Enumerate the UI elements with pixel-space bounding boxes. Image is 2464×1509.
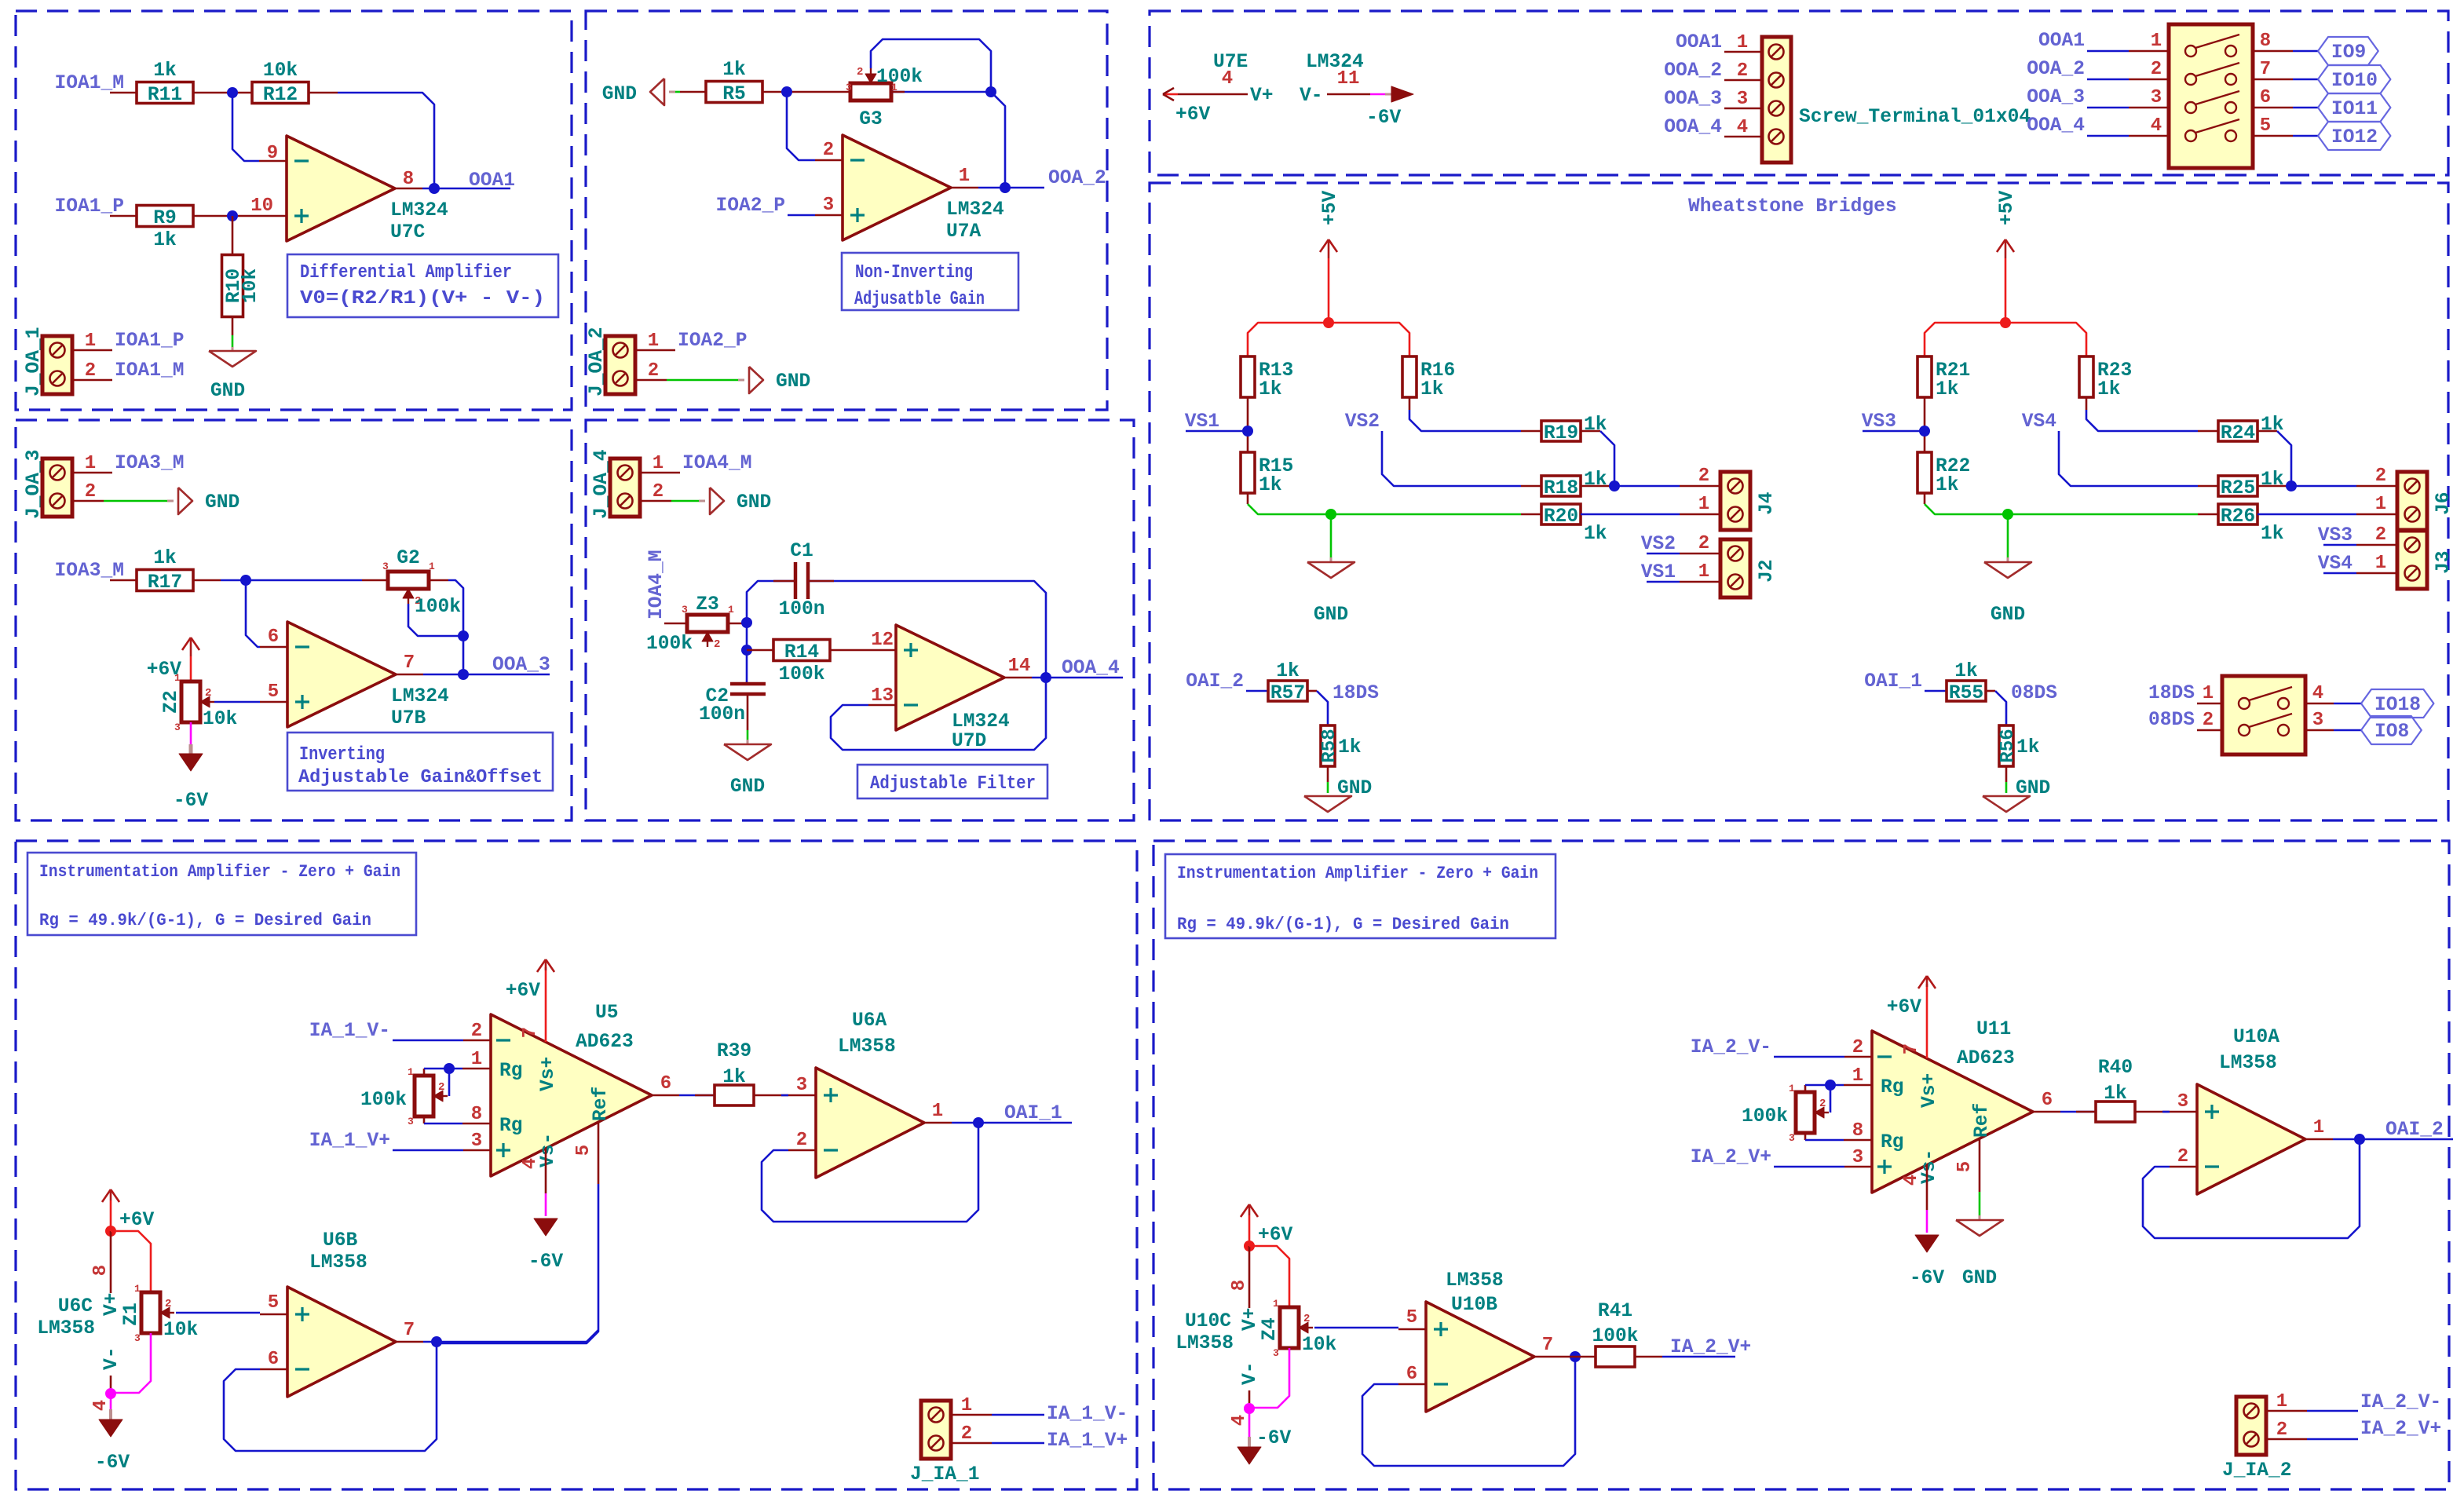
pin 1 wire J_OA_4	[640, 472, 680, 474]
pin 4 V+ of U7E	[1178, 93, 1248, 96]
power -6V arrow U10C	[1237, 1447, 1261, 1464]
svg-text:2: 2	[1737, 60, 1748, 82]
svg-text:IA_2_V+: IA_2_V+	[1670, 1337, 1751, 1358]
pin 6 output stub U11	[2033, 1111, 2060, 1113]
svg-text:V+: V+	[1240, 1307, 1261, 1331]
wire R5 to G3	[762, 91, 850, 93]
svg-text:2: 2	[823, 140, 834, 161]
pin 1 output stub U10A	[2305, 1138, 2333, 1141]
svg-text:GND: GND	[776, 371, 810, 393]
svg-text:R18: R18	[1544, 478, 1578, 499]
node junction -6V U10C	[1244, 1403, 1255, 1414]
node junction OOA_4	[1040, 672, 1051, 683]
text box Differential Amplifier	[287, 254, 558, 317]
svg-text:IA_2_V+: IA_2_V+	[1691, 1147, 1771, 1168]
svg-text:1: 1	[174, 672, 181, 684]
wire junction to op-amp pin 2	[787, 92, 815, 160]
svg-text:IOA4_M: IOA4_M	[646, 550, 667, 619]
svg-text:R23: R23	[2097, 360, 2132, 382]
svg-text:10k: 10k	[240, 269, 261, 304]
svg-text:Rg: Rg	[499, 1061, 523, 1082]
svg-text:1: 1	[85, 331, 96, 352]
wire rail right	[1329, 323, 1409, 356]
wire +5V to rail	[1328, 258, 1330, 323]
svg-text:OOA_2: OOA_2	[1048, 168, 1106, 189]
svg-text:R24: R24	[2221, 423, 2256, 444]
wire output OAI_2	[2333, 1138, 2453, 1141]
svg-text:Vs+: Vs+	[538, 1057, 559, 1091]
svg-text:5: 5	[268, 1292, 279, 1314]
node junction R11/R12	[227, 87, 238, 98]
node junction G4 pin1	[1825, 1080, 1836, 1091]
svg-text:VS3: VS3	[1862, 411, 1896, 433]
svg-text:Adjusatble Gain: Adjusatble Gain	[854, 289, 985, 310]
svg-text:12: 12	[871, 630, 894, 651]
wire U5 output to R39	[679, 1094, 715, 1097]
wire OOA_2 to switch pin 2	[2087, 79, 2129, 81]
pin 6 stub U10B	[1398, 1383, 1426, 1386]
pin 7 output stub U7B	[396, 674, 423, 676]
node junction feedback G3	[985, 86, 996, 97]
svg-text:V+: V+	[101, 1292, 122, 1316]
resistor R39	[715, 1085, 754, 1105]
node junction Z3/C1	[741, 617, 752, 628]
wire OAI_1 to R55	[1925, 690, 1947, 692]
wire U11 Ref to GND	[1979, 1138, 1981, 1192]
potentiometer G4	[1796, 1092, 1815, 1133]
svg-text:OAI_1: OAI_1	[1864, 671, 1922, 692]
svg-text:Wheatstone Bridges: Wheatstone Bridges	[1688, 196, 1897, 217]
svg-text:LM324: LM324	[952, 711, 1010, 733]
svg-text:-6V: -6V	[174, 791, 209, 812]
connector J_OA_1	[42, 336, 72, 394]
wire IA_1_V- to pin 2	[393, 1039, 463, 1042]
svg-text:IA_1_V-: IA_1_V-	[309, 1021, 390, 1042]
svg-text:100k: 100k	[778, 664, 824, 685]
instrumentation amplifier U5 AD623	[491, 1014, 652, 1176]
svg-text:+6V: +6V	[506, 981, 541, 1002]
svg-text:10k: 10k	[1302, 1335, 1337, 1356]
power arrow -6V U7E	[1391, 86, 1413, 102]
svg-text:2: 2	[2276, 1419, 2287, 1441]
wire output OOA1	[422, 188, 510, 190]
svg-text:1k: 1k	[2104, 1083, 2127, 1105]
pin 14 output stub U7D	[1004, 677, 1032, 679]
svg-text:IOA2_P: IOA2_P	[715, 195, 785, 217]
node junction Z3/R14	[741, 645, 752, 656]
svg-text:1: 1	[2276, 1391, 2287, 1412]
pin 2 stub U5	[463, 1039, 491, 1042]
svg-text:6: 6	[268, 627, 279, 648]
wire junction to op-amp pin 6	[246, 581, 260, 647]
node junction G1 pin1	[444, 1063, 455, 1074]
wire feedback loop U10A	[2143, 1139, 2360, 1238]
svg-text:100k: 100k	[1742, 1106, 1788, 1127]
resistor R20	[1541, 504, 1581, 524]
pin 5 stub U10B	[1398, 1328, 1426, 1331]
svg-text:1: 1	[429, 561, 435, 572]
svg-text:+6V: +6V	[1887, 997, 1922, 1018]
wire junction to connector pin 2	[2291, 485, 2356, 488]
wire R41 to IA_2_V+	[1635, 1356, 1662, 1358]
svg-text:U6A: U6A	[852, 1010, 887, 1032]
svg-text:10k: 10k	[263, 60, 298, 82]
svg-text:GND: GND	[205, 492, 239, 513]
svg-text:Rg = 49.9k/(G-1), G = Desired: Rg = 49.9k/(G-1), G = Desired Gain	[1177, 915, 1509, 934]
svg-text:3: 3	[1789, 1132, 1795, 1144]
svg-text:7: 7	[404, 652, 415, 674]
wire feedback loop U10B	[1362, 1357, 1575, 1466]
connector J_IA_2	[2236, 1397, 2266, 1455]
svg-text:R40: R40	[2098, 1058, 2133, 1079]
wire OOA1 to terminal pin 1	[1724, 51, 1762, 53]
svg-text:R13: R13	[1259, 360, 1293, 382]
svg-text:OAI_2: OAI_2	[2385, 1120, 2444, 1141]
svg-text:10k: 10k	[203, 709, 238, 730]
svg-text:R11: R11	[148, 85, 182, 106]
svg-text:13: 13	[871, 685, 894, 707]
svg-text:1k: 1k	[153, 60, 177, 82]
svg-text:+6V: +6V	[119, 1210, 155, 1231]
resistor R40	[2096, 1102, 2135, 1122]
svg-text:Rg: Rg	[1881, 1132, 1904, 1153]
svg-text:V-: V-	[101, 1346, 122, 1370]
wire OOA_3 to terminal pin 3	[1724, 108, 1762, 110]
svg-text:+6V: +6V	[1258, 1225, 1293, 1246]
resistor R22	[1917, 452, 1932, 493]
resistor R12	[252, 82, 309, 104]
svg-text:J2: J2	[1757, 559, 1778, 583]
svg-text:2: 2	[2375, 524, 2386, 546]
svg-text:3: 3	[408, 1116, 414, 1127]
svg-text:U7B: U7B	[391, 708, 426, 729]
pin 8 V+ U10C	[1248, 1246, 1251, 1308]
svg-text:1k: 1k	[1954, 661, 1978, 682]
svg-text:2: 2	[648, 360, 659, 382]
wire R58 to GND	[1327, 766, 1329, 782]
power +6V arrow U11	[1926, 976, 1928, 987]
svg-text:LM358: LM358	[309, 1252, 367, 1273]
svg-text:IA_1_V-: IA_1_V-	[1047, 1404, 1128, 1425]
pin 5 stub U6B	[260, 1314, 287, 1316]
svg-text:U7A: U7A	[946, 221, 982, 243]
pin 7 output stub U6B	[396, 1341, 423, 1343]
wire bottom left to green rail	[1247, 493, 1249, 504]
op-amp U7D	[896, 625, 1004, 730]
svg-text:100k: 100k	[876, 67, 923, 88]
svg-text:1: 1	[408, 1066, 414, 1078]
wire R56 to GND	[2005, 766, 2008, 782]
wire G4 wiper to pin 1	[1830, 1085, 1832, 1113]
svg-text:IA_2_V-: IA_2_V-	[1691, 1037, 1771, 1058]
pin 1 wire J_OA_1	[72, 349, 112, 352]
resistor R41	[1596, 1346, 1635, 1367]
power -6V below Z2	[189, 744, 193, 755]
svg-text:Screw_Terminal_01x04: Screw_Terminal_01x04	[1799, 107, 2031, 128]
resistor R57	[1268, 681, 1307, 701]
svg-text:V0=(R2/R1)(V+ - V-): V0=(R2/R1)(V+ - V-)	[300, 288, 545, 309]
global label IO12	[2318, 122, 2390, 150]
svg-text:VS3: VS3	[2318, 525, 2352, 546]
svg-text:R9: R9	[153, 208, 177, 229]
pin 3 stub U10A	[2170, 1111, 2197, 1113]
svg-text:1k: 1k	[1259, 475, 1282, 496]
svg-text:OOA_4: OOA_4	[1062, 658, 1120, 679]
connector J6	[2397, 472, 2427, 530]
svg-text:J_OA_2: J_OA_2	[587, 327, 608, 396]
svg-text:LM358: LM358	[838, 1036, 896, 1058]
pin 7 output stub U10B	[1534, 1356, 1562, 1358]
svg-text:IA_1_V+: IA_1_V+	[309, 1131, 390, 1152]
svg-text:9: 9	[267, 143, 278, 164]
wire G2 wiper to feedback	[408, 604, 463, 636]
svg-text:2: 2	[1819, 1098, 1826, 1110]
svg-text:4: 4	[1229, 1415, 1250, 1426]
pin 2 stub U6A	[788, 1149, 816, 1152]
op-amp U7C	[287, 136, 395, 241]
pin 4 V- U10C	[1248, 1390, 1251, 1409]
wire R57 to R58	[1307, 690, 1317, 692]
screw terminal Screw_Terminal_01x04	[1762, 37, 1791, 163]
svg-text:Rg: Rg	[499, 1116, 523, 1137]
power +6V arrow U5	[545, 959, 547, 970]
pin 6 output stub U5	[652, 1094, 679, 1097]
svg-text:2: 2	[2151, 59, 2162, 80]
svg-text:2: 2	[165, 1298, 171, 1310]
svg-text:2: 2	[857, 66, 863, 79]
wire switch pin 8 to IO9	[2253, 50, 2293, 53]
section border: differential amplifier block	[16, 11, 572, 410]
svg-text:OAI_1: OAI_1	[1004, 1103, 1062, 1124]
svg-text:8: 8	[1229, 1280, 1250, 1291]
svg-text:R17: R17	[148, 572, 182, 594]
wire green to GND	[1330, 514, 1333, 557]
wire R55 to R56	[1986, 690, 1995, 692]
power -6V arrow U6C	[99, 1419, 122, 1437]
svg-text:Instrumentation Amplifier - Ze: Instrumentation Amplifier - Zero + Gain	[39, 862, 400, 882]
svg-text:5: 5	[268, 681, 279, 703]
potentiometer Z3	[687, 615, 728, 632]
svg-text:5: 5	[1406, 1307, 1417, 1328]
svg-text:5: 5	[2260, 115, 2271, 137]
resistor R14	[773, 640, 830, 661]
svg-text:Z1: Z1	[121, 1303, 142, 1326]
svg-text:10k: 10k	[163, 1320, 199, 1341]
ground symbol U11 Ref	[1956, 1220, 2003, 1236]
svg-text:100n: 100n	[778, 599, 824, 620]
svg-text:GND: GND	[1991, 605, 2025, 626]
wire R10 top	[232, 216, 234, 255]
pin 13 stub U7D	[868, 704, 896, 707]
svg-text:Non-Inverting: Non-Inverting	[855, 262, 973, 283]
svg-text:J6: J6	[2433, 491, 2455, 515]
svg-text:GND: GND	[2016, 778, 2050, 799]
text box Instrumentation Amplifier 1	[27, 853, 416, 935]
pin 1 output stub U6A	[924, 1122, 952, 1124]
svg-text:J_OA_4: J_OA_4	[591, 449, 612, 519]
svg-text:1: 1	[1737, 32, 1748, 53]
node junction OAI_2	[2354, 1134, 2365, 1145]
wire feedback loop U6B	[224, 1342, 437, 1451]
svg-text:8: 8	[1852, 1120, 1863, 1142]
pin 5 stub U7B	[260, 701, 287, 703]
svg-text:IO8: IO8	[2374, 722, 2409, 743]
svg-text:IOA1_P: IOA1_P	[54, 196, 124, 217]
svg-text:R22: R22	[1936, 456, 1970, 477]
pin 2 wire J_IA_1	[951, 1442, 992, 1445]
svg-text:Z4: Z4	[1259, 1317, 1281, 1341]
op-amp U6A	[816, 1068, 924, 1178]
wire OOA1 to switch pin 1	[2087, 50, 2129, 53]
svg-text:R55: R55	[1949, 683, 1983, 704]
svg-text:08DS: 08DS	[2011, 683, 2057, 704]
svg-text:1k: 1k	[1936, 379, 1959, 400]
svg-text:1: 1	[134, 1283, 141, 1295]
wire U11 output to R40	[2060, 1111, 2096, 1113]
node junction OOA_3	[458, 669, 469, 680]
svg-text:11: 11	[1337, 68, 1360, 90]
wire IOA2_P to pin 3	[788, 214, 815, 217]
svg-text:IO18: IO18	[2374, 695, 2421, 716]
svg-text:GND: GND	[737, 492, 771, 513]
wire R11 to R12	[193, 92, 252, 94]
svg-text:VS1: VS1	[1641, 562, 1676, 583]
svg-text:Adjustable Gain&Offset: Adjustable Gain&Offset	[298, 767, 543, 788]
svg-text:14: 14	[1008, 656, 1031, 677]
wire Z1 wiper to pin 5 U6B	[176, 1312, 260, 1314]
capacitor C2	[730, 682, 766, 686]
connector J2	[1720, 539, 1750, 597]
resistor R58	[1321, 725, 1335, 766]
svg-text:1k: 1k	[722, 60, 746, 81]
pin 3 stub U7A	[815, 214, 843, 217]
pin 8 output stub U7C	[395, 188, 422, 190]
svg-text:-6V: -6V	[1256, 1428, 1292, 1449]
wire node A up to C1	[747, 581, 795, 623]
wire IOA1_M to R11	[110, 92, 137, 94]
svg-text:GND: GND	[210, 381, 245, 402]
svg-text:6: 6	[268, 1349, 279, 1370]
svg-text:2: 2	[2375, 466, 2386, 487]
power -6V arrow U5	[534, 1219, 558, 1236]
connector J_OA_3	[42, 459, 72, 517]
wire feedback loop U6A	[762, 1123, 978, 1222]
svg-text:IOA1_M: IOA1_M	[54, 73, 124, 94]
svg-text:U11: U11	[1976, 1019, 2011, 1040]
svg-text:2: 2	[961, 1423, 972, 1445]
svg-text:3: 3	[174, 722, 181, 733]
wire Z4 bottom magenta	[1249, 1348, 1289, 1408]
wire G1 bottom to pin 8	[423, 1116, 426, 1124]
svg-text:IA_2_V+: IA_2_V+	[2360, 1419, 2441, 1440]
potentiometer Z1	[141, 1292, 160, 1333]
ground symbol below R10	[209, 351, 256, 367]
svg-text:IA_1_V+: IA_1_V+	[1047, 1430, 1128, 1452]
svg-text:U10B: U10B	[1451, 1295, 1497, 1316]
svg-text:2: 2	[796, 1130, 807, 1151]
node junction +5V rail	[1323, 317, 1334, 328]
svg-text:R5: R5	[722, 84, 746, 105]
svg-text:U6C: U6C	[58, 1296, 93, 1317]
wire Z2 bottom to -6V	[190, 722, 192, 751]
resistor R55	[1947, 681, 1986, 701]
wire U5 Ref to U6B output	[598, 1122, 600, 1184]
pin 1 wire J_OA_3	[72, 472, 112, 474]
wire G1 wiper to pin 1	[448, 1069, 451, 1096]
node junction rD/rE	[1609, 480, 1620, 491]
wire G4 top to pin 1	[1804, 1085, 1807, 1092]
svg-text:LM358: LM358	[2219, 1053, 2277, 1074]
svg-text:1k: 1k	[2261, 415, 2284, 436]
wire G2 right pin to feedback	[429, 579, 448, 582]
power +6V arrow U10C	[1248, 1204, 1251, 1215]
wire VS3 to J3 pin 2	[2323, 544, 2356, 546]
svg-text:U7C: U7C	[390, 222, 426, 243]
resistor R16	[1402, 356, 1417, 397]
svg-text:10: 10	[250, 195, 273, 217]
svg-text:Differential Amplifier: Differential Amplifier	[300, 262, 512, 283]
switch block SW 2x	[2222, 676, 2305, 754]
svg-text:1: 1	[2203, 683, 2214, 704]
wire VS2 to J2 pin 2	[1647, 553, 1680, 555]
svg-text:R16: R16	[1420, 360, 1455, 382]
svg-text:+6V: +6V	[1175, 104, 1211, 126]
svg-text:3: 3	[796, 1075, 807, 1096]
wire switch pin 7 to IO10	[2253, 79, 2293, 81]
svg-text:8: 8	[403, 169, 414, 190]
global label IO18	[2361, 689, 2433, 718]
wire rE to junction	[1581, 485, 1614, 488]
resistor R23	[2079, 356, 2093, 397]
pin 3 stub U11	[1844, 1166, 1872, 1168]
svg-text:1: 1	[1852, 1065, 1863, 1087]
resistor R9	[137, 206, 193, 227]
svg-text:U5: U5	[595, 1003, 619, 1024]
svg-text:1: 1	[961, 1395, 972, 1416]
pin 1 wire J_OA_2	[635, 349, 675, 352]
svg-text:R14: R14	[784, 642, 820, 663]
wire switch pin 4 to IO18	[2305, 703, 2334, 705]
svg-text:IO11: IO11	[2331, 99, 2378, 120]
svg-text:VS4: VS4	[2022, 411, 2057, 433]
svg-text:OAI_2: OAI_2	[1186, 671, 1244, 692]
svg-text:2: 2	[714, 638, 720, 651]
svg-text:J4: J4	[1757, 491, 1778, 515]
svg-text:Instrumentation Amplifier - Ze: Instrumentation Amplifier - Zero + Gain	[1177, 864, 1538, 883]
wire +6V to Z4	[1249, 1246, 1289, 1307]
connector J_OA_2	[605, 336, 635, 394]
svg-text:+5V: +5V	[1997, 190, 2018, 225]
ground symbol bridge	[1307, 562, 1354, 578]
svg-text:J_IA_2: J_IA_2	[2222, 1460, 2292, 1482]
svg-text:1: 1	[85, 453, 96, 474]
svg-text:U10A: U10A	[2233, 1027, 2279, 1048]
node junction output U10B	[1570, 1351, 1581, 1362]
svg-text:3: 3	[1737, 89, 1748, 110]
svg-text:R56: R56	[1998, 729, 2019, 762]
svg-text:OOA1: OOA1	[1676, 32, 1722, 53]
svg-text:LM324: LM324	[391, 686, 449, 707]
svg-text:OOA_3: OOA_3	[2027, 87, 2085, 108]
svg-text:Ref: Ref	[590, 1087, 612, 1121]
svg-text:VS4: VS4	[2318, 554, 2353, 575]
svg-text:1k: 1k	[1936, 475, 1959, 496]
wire output OOA_2	[978, 187, 1044, 189]
ground symbol below R56	[1983, 796, 2030, 812]
svg-text:1: 1	[1698, 561, 1709, 583]
section border: power/terminal block top right	[1150, 11, 2448, 175]
wire R12 to output node	[309, 92, 338, 94]
